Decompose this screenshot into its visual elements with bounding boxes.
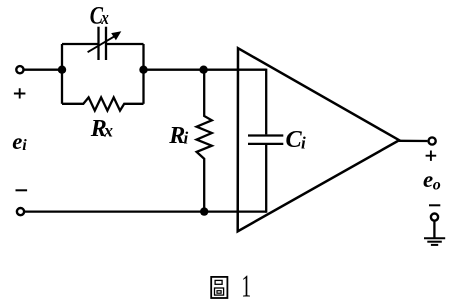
ground lead: [433, 221, 435, 238]
wire: box right edge: [142, 44, 144, 104]
label: - (output): [429, 204, 440, 206]
svg-text:1: 1: [241, 268, 251, 304]
capacitor Ci top lead: [265, 69, 267, 135]
label: + (input): [14, 88, 26, 98]
wire: output lead: [399, 140, 427, 142]
node: left box junction: [58, 66, 66, 74]
terminal: output +: [429, 137, 436, 144]
terminal: input -: [17, 208, 24, 215]
capacitor Ci bottom lead: [265, 145, 267, 213]
capacitor Cx variability arrow: [88, 36, 115, 52]
svg-text:eo: eo: [423, 167, 441, 194]
svg-text:Ri: Ri: [168, 123, 188, 149]
capacitor Ci plates: [248, 134, 283, 136]
node: Ri bottom junction: [200, 207, 208, 215]
resistor Rx (bottom edge of box, with leads): [62, 97, 144, 110]
wire: top rail to Ci corner: [144, 69, 267, 71]
svg-text:Cx: Cx: [90, 1, 109, 29]
label: - (input): [16, 189, 28, 191]
svg-text:Rx: Rx: [90, 116, 113, 142]
capacitor Cx (variable) plates: [97, 27, 99, 60]
ground terminal circle: [431, 214, 438, 221]
wire: box top edge, left of Cx: [62, 43, 99, 45]
wire: bottom rail: [25, 210, 266, 212]
ground bars: [424, 237, 445, 239]
wire: parallel-box left edge: [61, 44, 63, 104]
resistor Ri (vertical): [197, 70, 212, 212]
caption: character 圖: [211, 277, 227, 298]
svg-text:ei: ei: [12, 129, 27, 154]
wire: input top lead: [24, 69, 62, 71]
op-amp U1 triangle: [238, 48, 400, 231]
svg-text:Ci: Ci: [286, 126, 307, 153]
node: right box junction: [139, 66, 147, 74]
node: Ri top junction: [199, 66, 207, 74]
terminal: input +: [16, 66, 23, 73]
wire: box top edge, right of Cx: [106, 43, 144, 45]
label: + (output): [426, 151, 437, 161]
